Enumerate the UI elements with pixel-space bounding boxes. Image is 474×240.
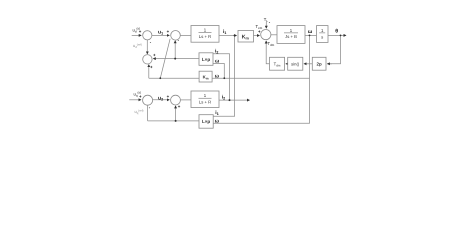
wire TL into sum E top (265, 22, 267, 28)
svg-text:ω: ω (308, 29, 313, 35)
wire sum B to block W1 (180, 34, 191, 36)
wire input b to sum D (129, 99, 141, 101)
svg-text:+: + (150, 64, 153, 69)
svg-text:+: + (258, 29, 261, 34)
summing junction D (143, 95, 153, 105)
wire sum E to block W3 (271, 34, 277, 36)
summing junction B (171, 31, 181, 41)
wire Lp bottom output left (148, 120, 199, 122)
block W1 1/(Ls+R) (191, 26, 219, 43)
wire W2 output i2 (219, 99, 250, 101)
svg-text:s: s (321, 34, 323, 39)
svg-text:θ: θ (335, 28, 338, 34)
block Km1 (238, 31, 254, 43)
wire Km2 output up to sum C bottom (148, 65, 150, 79)
svg-text:+: + (178, 104, 181, 109)
wire omega branch to Km2 (212, 77, 309, 79)
svg-text:+: + (167, 94, 170, 99)
wire Lp top output to sum C right (153, 58, 199, 60)
wire sum D to sum E2 (153, 99, 170, 101)
wire sin to Tdm (286, 63, 288, 65)
wire omega feedback vertical (213, 35, 309, 123)
wire sum A to sum B (152, 34, 169, 36)
summing junction E2 (171, 95, 181, 105)
wire input a to sum A (132, 34, 142, 36)
wire branch up to sum E2 bottom (175, 106, 177, 121)
wire diagonal Km2 output to sum B bottom (160, 39, 170, 78)
svg-text:Ls + R: Ls + R (199, 34, 211, 39)
wire theta tap to 2p block (327, 35, 340, 63)
summing junction C (143, 55, 152, 64)
wire sum E2 to block W2 (180, 99, 191, 101)
block W3 1/(Js+B) (277, 26, 305, 44)
block Lp bottom (199, 115, 213, 129)
wire sum D bottom down (147, 105, 149, 121)
svg-text:+: + (167, 29, 170, 34)
block W4 integrator (317, 26, 329, 43)
block Km2 (199, 71, 212, 82)
svg-text:sin(): sin() (291, 62, 300, 67)
wire W1 to Km1 (current i1) (219, 35, 237, 37)
svg-text:2p: 2p (317, 62, 322, 67)
svg-text:L×p: L×p (202, 57, 210, 62)
wire i1 tap down to Lp bottom (213, 36, 234, 117)
junction dots (159, 35, 341, 122)
svg-text:+: + (139, 94, 142, 99)
svg-text:+: + (153, 53, 156, 58)
wire Lp top omega stub (213, 64, 224, 79)
wire Km2 output left (149, 77, 199, 79)
wire branch up to sum B bottom (174, 41, 176, 59)
wire W3 to W4 (omega) (305, 34, 317, 36)
svg-text:Js + B: Js + B (285, 34, 297, 39)
block sin (288, 57, 303, 70)
block 2p (312, 57, 326, 70)
block W2 1/(Ls+R) (191, 91, 219, 108)
wire W4 to theta output (328, 34, 346, 36)
block Lp top (199, 53, 213, 66)
wire sum A down to sum C (146, 40, 148, 54)
wire Km1 to sum E (254, 35, 260, 37)
summing junction A (143, 31, 152, 40)
svg-text:Ls + R: Ls + R (199, 100, 211, 105)
svg-text:+: + (139, 29, 142, 34)
block Tdm (270, 57, 285, 70)
wire i2 tap up to Lp top (213, 54, 230, 100)
svg-text:L×p: L×p (202, 119, 210, 124)
wire 2p to sin (304, 63, 312, 65)
summing junction E torque (261, 29, 271, 39)
wire Tdm output up to sum E bottom (266, 41, 269, 64)
arrowhead into 2p (327, 63, 332, 65)
